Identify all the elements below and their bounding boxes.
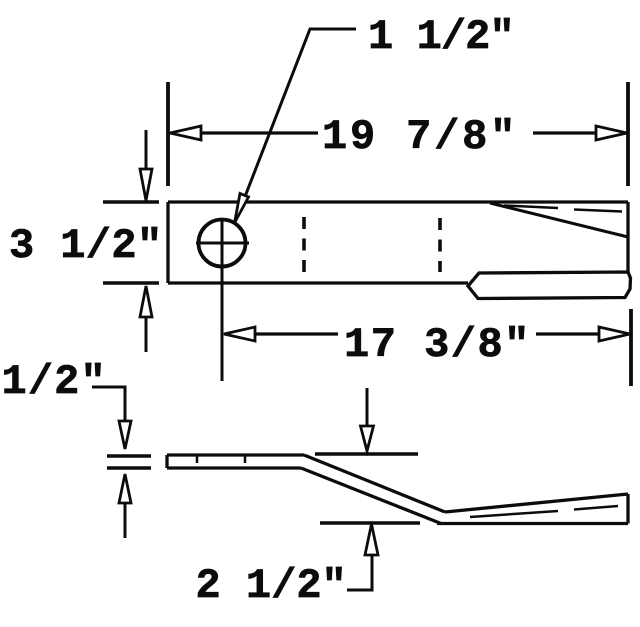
dim 1/2 arrow down bbox=[119, 421, 131, 449]
dim 3 1/2 tick bottom bbox=[103, 281, 159, 285]
label 19 7/8" bbox=[322, 113, 515, 161]
dim 19 7/8 extension line left bbox=[166, 82, 170, 186]
hole center line / extension line down bbox=[221, 220, 224, 381]
dim 19 7/8 arrow right bbox=[596, 126, 627, 140]
bar tick marks bbox=[197, 456, 245, 463]
svg-text:3 1/2": 3 1/2" bbox=[9, 222, 162, 270]
leader 1 1/2 bbox=[239, 29, 356, 212]
dim 2 1/2 arrow down bbox=[361, 388, 374, 451]
blade top-view outline bbox=[168, 202, 628, 283]
dim 3 1/2 tick top bbox=[103, 200, 159, 204]
svg-text:1 1/2": 1 1/2" bbox=[368, 13, 515, 61]
side view flat bar bbox=[167, 455, 304, 468]
dim 19 7/8 extension line right bbox=[626, 82, 630, 186]
label 3 1/2" bbox=[9, 222, 162, 270]
bend line dashed left bbox=[302, 217, 306, 272]
blade right-end wing (top view) bbox=[468, 272, 631, 299]
dim 19 7/8 line left segment bbox=[171, 131, 318, 134]
dim 3 1/2 arrow up bbox=[140, 286, 152, 352]
dim 2 1/2 top reference line bbox=[315, 452, 418, 456]
dim 1/2 arrow up bbox=[119, 474, 131, 538]
cutting-edge bevel diagonal bbox=[490, 203, 628, 237]
right section bevel inner line bbox=[470, 506, 618, 517]
hole crosshair horizontal bbox=[196, 242, 249, 245]
side view bend slant bbox=[301, 455, 445, 524]
svg-text:1/2": 1/2" bbox=[2, 358, 106, 406]
dim 19 7/8 arrow left bbox=[170, 126, 201, 140]
label 1 1/2" bbox=[368, 13, 515, 61]
dim 17 3/8 arrow left bbox=[224, 327, 255, 341]
dim 1/2 leader bbox=[92, 387, 125, 420]
center hole bbox=[199, 220, 246, 267]
dim 1/2 tick top bbox=[107, 454, 151, 458]
dim 17 3/8 arrow right bbox=[599, 327, 630, 341]
bend line dashed right bbox=[438, 218, 442, 272]
label 2 1/2" bbox=[196, 562, 347, 610]
dim 1/2 tick bottom bbox=[107, 466, 151, 470]
dim 17 3/8 line right segment bbox=[536, 332, 627, 335]
label 17 3/8" bbox=[344, 321, 529, 369]
side view right blade section bbox=[437, 494, 628, 524]
dim 17 3/8 line left segment bbox=[227, 332, 338, 335]
svg-text:17 3/8": 17 3/8" bbox=[344, 321, 529, 369]
dim 19 7/8 line right segment bbox=[533, 131, 624, 134]
svg-text:19 7/8": 19 7/8" bbox=[322, 113, 515, 161]
bevel inner thin line bbox=[504, 206, 622, 212]
dim 2 1/2 bottom reference line bbox=[320, 521, 420, 525]
dim 2 1/2 arrow up with leader bbox=[347, 524, 378, 590]
svg-text:2 1/2": 2 1/2" bbox=[196, 562, 347, 610]
leader 1 1/2 arrowhead bbox=[235, 194, 249, 224]
dim 17 3/8 extension line right bbox=[629, 309, 633, 386]
dim 3 1/2 arrow down bbox=[140, 130, 152, 201]
label 1/2" bbox=[2, 358, 106, 406]
